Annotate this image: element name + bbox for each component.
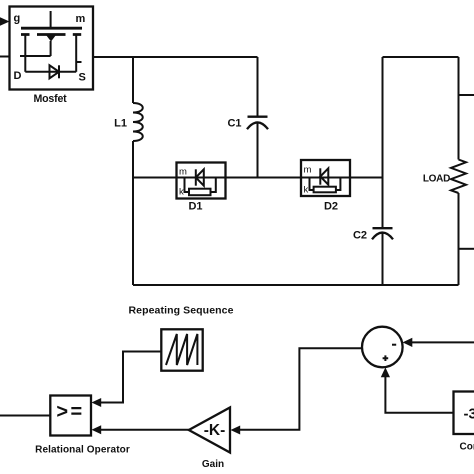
wire middle rail (133, 177, 383, 179)
capacitor C2 top plate (373, 227, 393, 229)
repeating sequence sawtooth (166, 334, 197, 365)
mosfet source horizontal (20, 55, 51, 57)
D1 snubber resistor (189, 189, 211, 196)
D2 snubber right drop (336, 178, 341, 191)
mosfet gate lead (50, 11, 52, 27)
wire C2 top (382, 57, 384, 227)
svg-text:C2: C2 (353, 230, 367, 242)
arrowhead into relational op bottom (92, 425, 102, 434)
svg-text:m: m (304, 165, 312, 176)
wire relational operator output (0, 415, 50, 417)
repeating sequence block box (161, 329, 202, 370)
wire bottom rail (133, 284, 459, 286)
mosfet body diode (50, 65, 60, 78)
capacitor C1 curved plate (247, 122, 268, 129)
diode D1 triangle (196, 169, 204, 185)
svg-text:S: S (79, 72, 86, 84)
wire L1 top (132, 57, 134, 103)
resistor LOAD (451, 160, 466, 194)
svg-text:D1: D1 (188, 201, 202, 213)
mosfet drain wire (25, 71, 76, 73)
arrowhead into gain (231, 426, 241, 435)
wire repeating sequence to relational operator (101, 352, 161, 403)
arrowhead into sum bottom (381, 367, 390, 377)
svg-text:m: m (76, 13, 86, 25)
constant block box (454, 392, 474, 435)
svg-text:Relational Operator: Relational Operator (35, 445, 130, 456)
mosfet right tick (76, 61, 81, 63)
D1 snubber right drop (211, 178, 216, 193)
mosfet mid vertical (50, 41, 52, 56)
svg-text:-K-: -K- (204, 422, 226, 439)
svg-text:g: g (14, 13, 21, 25)
wire C2 bottom (382, 233, 384, 285)
svg-text:D: D (14, 70, 22, 82)
svg-text:LOAD: LOAD (423, 174, 450, 185)
svg-text:m: m (179, 167, 187, 178)
svg-text:Mosfet: Mosfet (34, 93, 68, 105)
diode D2 triangle (320, 168, 328, 184)
svg-text:-3: -3 (464, 406, 474, 423)
mosfet body diode bar (58, 65, 60, 78)
svg-text:Gain: Gain (202, 459, 224, 470)
mosfet body arrow (46, 35, 56, 42)
arrowhead into relational op top (92, 398, 102, 407)
wire sum output to gain (240, 348, 362, 430)
relational operator block box (50, 396, 91, 436)
D2 snubber resistor (314, 187, 336, 193)
gain block triangle (189, 408, 230, 453)
wire load bottom (458, 193, 460, 285)
mosfet gate bar (21, 27, 82, 30)
wire top right segment (383, 56, 459, 58)
mosfet channel segments (21, 33, 81, 36)
sum block circle (362, 327, 403, 368)
D2 snubber left drop (310, 178, 314, 191)
svg-text:C1: C1 (227, 118, 241, 130)
svg-text:k: k (179, 187, 184, 198)
diode block D2 box (301, 160, 350, 196)
diode D1 bar (195, 169, 197, 185)
inductor L1 (133, 103, 143, 141)
capacitor C1 top plate (248, 116, 268, 118)
svg-text:Constant: Constant (460, 442, 474, 453)
diode D2 bar (319, 168, 321, 184)
mosfet block U1 box (10, 7, 94, 90)
svg-text:D2: D2 (324, 201, 338, 213)
wire constant to sum plus input (385, 377, 453, 413)
diode block D1 box (177, 163, 226, 199)
wire C1 bottom (257, 123, 259, 178)
wire stub top right (459, 94, 474, 96)
mosfet left vertical (24, 35, 26, 72)
sum minus sign (392, 344, 396, 346)
D1 snubber left drop (185, 178, 190, 193)
svg-text:L1: L1 (114, 118, 127, 130)
wire L1 bottom to bottom rail (132, 141, 134, 285)
gate input arrow (0, 17, 10, 25)
sum plus sign (383, 355, 389, 361)
wire gain output to relational operator (101, 429, 189, 431)
capacitor C2 curved plate (372, 233, 393, 240)
svg-text:>=: >= (56, 401, 84, 423)
arrowhead into sum right (403, 338, 413, 347)
svg-text:k: k (304, 185, 309, 196)
svg-text:Repeating Sequence: Repeating Sequence (128, 305, 233, 317)
wire C1 top (257, 57, 259, 116)
mosfet right vertical (75, 35, 77, 72)
wire right input to sum (412, 341, 474, 343)
wire load top (458, 57, 460, 160)
wire left terminal (0, 56, 10, 58)
wire mosfet output to C1 top (93, 56, 258, 58)
wire stub bottom right (459, 248, 474, 250)
